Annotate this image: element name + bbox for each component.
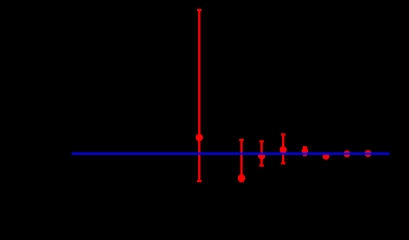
errorbar point 1 bar bbox=[198, 10, 200, 181]
errorbar point 3 bar bbox=[260, 141, 262, 165]
errorbar point 4 bottom cap bbox=[281, 162, 286, 164]
marker point 8 bbox=[365, 150, 372, 157]
marker point 7 bbox=[344, 150, 351, 157]
errorbar point 2 bar bbox=[240, 140, 242, 181]
marker point 5 bbox=[302, 148, 309, 155]
errorbar point 3 top cap bbox=[259, 140, 264, 142]
errorbar point 2 top cap bbox=[239, 139, 244, 141]
red errorbar series bbox=[197, 10, 307, 181]
marker point 1 bbox=[196, 134, 203, 141]
blue horizontal reference line bbox=[72, 153, 390, 155]
errorbar point 5 bottom cap bbox=[303, 154, 307, 156]
marker point 6 bbox=[323, 153, 330, 160]
errorbar point 5 bar bbox=[304, 147, 306, 155]
errorbar point 2 bottom cap bbox=[239, 180, 244, 182]
errorbar point 3 bottom cap bbox=[259, 165, 264, 167]
errorbar point 4 bar bbox=[282, 134, 284, 163]
marker point 2 bbox=[238, 174, 246, 182]
errorbar point 5 top cap bbox=[303, 146, 307, 148]
errorbar point 1 top cap bbox=[197, 9, 202, 11]
marker point 3 bbox=[258, 152, 265, 159]
errorbar point 1 bottom cap bbox=[197, 180, 202, 182]
marker point 4 bbox=[280, 146, 287, 153]
errorbar point 4 top cap bbox=[281, 133, 286, 135]
